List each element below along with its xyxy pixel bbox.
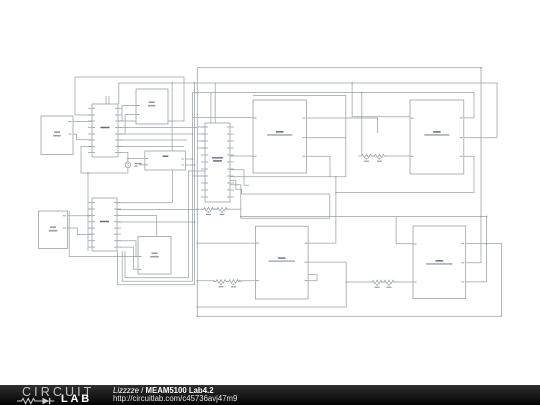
wire motor left 2 pin1 bbox=[118, 106, 136, 122]
wire branch y83 to IR RX top bbox=[171, 83, 173, 151]
wire chip2 riser loop 3 to ESP pin bbox=[125, 171, 205, 278]
wire loop upper-left bbox=[75, 77, 184, 121]
battery V1 5V bbox=[125, 162, 131, 168]
resistor R1 bbox=[201, 207, 217, 211]
photosensor U6 QRE1113 left 2 bbox=[410, 100, 464, 174]
wire pair2 right lead bbox=[385, 155, 410, 157]
wire pair3 leads bbox=[197, 280, 214, 282]
wire chip2 pin1 to IR RX bottom bbox=[117, 170, 173, 203]
wire battery branch to IR RX pin1 bbox=[128, 158, 145, 160]
wire net top run to photosensor B pin1 bbox=[193, 93, 475, 159]
wire bottom run y307 bbox=[197, 262, 346, 307]
resistor R7 bbox=[369, 280, 385, 284]
wire motor right 2 pin2 bbox=[117, 247, 138, 269]
wire box A pin1-right bbox=[306, 118, 377, 133]
wire box B pin1-left feed from y83 run bbox=[352, 83, 410, 117]
wire chip2 pin2 long run to rail bbox=[117, 209, 197, 211]
wire IR RX left pin2 stub bbox=[139, 164, 145, 166]
wire chip1 pin runs to rails bbox=[118, 127, 197, 129]
wire box A pin1 feed bbox=[193, 117, 254, 119]
wire ESP top feeds bbox=[210, 93, 212, 123]
junction dots bbox=[480, 216, 482, 218]
CircuitLab logo bbox=[22, 385, 94, 399]
resistor R6 bbox=[226, 280, 242, 284]
wire box A pin3-right bbox=[306, 156, 330, 177]
motor M3 Motor Right 1 bbox=[39, 211, 68, 249]
wire box C pin3-right stub loop bbox=[308, 275, 317, 281]
logo glyph: resistor + diode bbox=[17, 397, 59, 405]
wire motor left 2 pin2 bbox=[118, 115, 136, 135]
photosensor U7 QRE1113 right 1 bbox=[255, 226, 308, 299]
wire box A loop right bbox=[230, 96, 346, 177]
wire pair4 leads bbox=[346, 281, 371, 283]
motor M1 Motor Left 1 bbox=[41, 116, 73, 155]
wire box A pin2-right bbox=[306, 137, 345, 139]
wire x487 to box D pin3 bbox=[466, 217, 487, 282]
wire bottom long run bbox=[197, 244, 501, 317]
resistor R2 bbox=[214, 207, 230, 211]
wire box D pin1-left feed bbox=[396, 217, 413, 244]
wire net top run to photosensor B pin2 bbox=[119, 83, 497, 138]
wire chip1 pin7 to battery rail bbox=[81, 147, 92, 174]
wire vertical x335.9 to box C pin1-right bbox=[308, 177, 336, 243]
photosensor U8 QRE1113 right 2 bbox=[413, 226, 466, 299]
wire pair2 feed from y92.6 run bbox=[361, 93, 363, 156]
wire ESP pin staircase y169.7 bbox=[230, 170, 249, 186]
wire motor right 1 loop to motor right 2 bbox=[69, 211, 138, 257]
resistor R8 bbox=[381, 280, 397, 284]
wire box B pin3 loop to box C vertical bbox=[336, 156, 474, 192]
wire chip2 pin3 to motor right 2 top bbox=[117, 216, 157, 237]
resistor R4 bbox=[372, 154, 388, 158]
H-bridge U1 SN754410 bbox=[92, 104, 118, 157]
wire chip2 pin4 long run to rail2 bbox=[117, 221, 195, 223]
wire battery bottom rail bbox=[88, 168, 128, 252]
wire motor right 1 pin2 dogleg bbox=[68, 228, 93, 234]
wire ESP staircase run to x329.8 bbox=[230, 180, 330, 218]
wire box C pin1-left feed bbox=[197, 242, 255, 244]
wire ESP pin to long run y216.5 bbox=[230, 185, 241, 219]
wire rail x197.5 bbox=[196, 68, 198, 316]
wire motor left 1 pin1 bbox=[73, 120, 92, 122]
wire ESP left pin feeds from rail bbox=[197, 126, 205, 128]
wire ESP left pin tap y176 bbox=[193, 175, 206, 177]
wire motor left 1 pin2 dogleg bbox=[73, 134, 92, 140]
wire pair1 leads bbox=[197, 208, 205, 210]
resistor R3 bbox=[359, 154, 375, 158]
resistor R5 bbox=[213, 280, 229, 284]
motor M2 Motor Left 2 bbox=[136, 89, 168, 124]
wire battery top to chip1 bbox=[118, 152, 128, 162]
wire motor right 2 pin1 bbox=[117, 241, 138, 257]
H-bridge U2 SN754410 bbox=[92, 198, 117, 251]
wire chip2 riser loop 1 via IR pin2 bbox=[118, 83, 195, 285]
MCU U4 ESP32-C3 stamp bbox=[205, 123, 230, 202]
motor M4 Motor Right 2 bbox=[138, 237, 171, 275]
wire long run y216.5 bbox=[241, 216, 487, 218]
wire chip1 inner verticals bbox=[105, 96, 107, 152]
wire net VCC top run to photosensor D pin2 bbox=[197, 68, 481, 263]
photosensor U5 QRE1113 left 1 bbox=[253, 100, 306, 173]
wire motor right 1 pin1 bbox=[68, 215, 93, 217]
footer bar bbox=[0, 385, 540, 405]
wire ESP to box A pin2 bbox=[230, 155, 253, 157]
wire chip2 riser loop 2 via x192.5 bbox=[122, 159, 192, 281]
IR receiver U3 IR RX bbox=[145, 151, 186, 170]
